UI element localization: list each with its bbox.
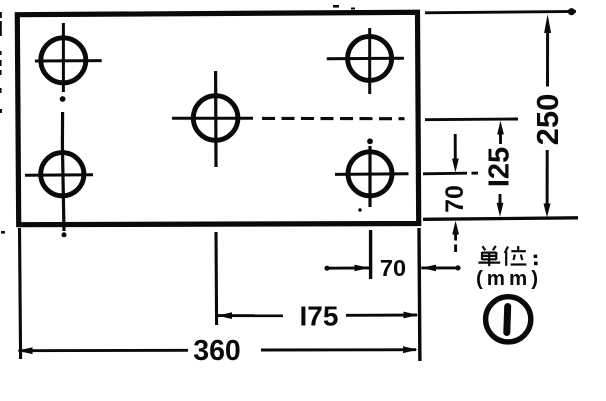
svg-text:70: 70	[441, 185, 469, 213]
center line H4 vertical	[368, 28, 371, 94]
note unit label 位	[505, 246, 527, 266]
hole H1 top-left	[41, 38, 86, 83]
dimension 70 horizontal (bottom)	[324, 265, 460, 272]
dimension 70 vertical (right side)	[452, 134, 459, 252]
center line H5 horizontal	[335, 172, 409, 176]
hole H5 bottom-right	[348, 152, 392, 196]
svg-text:(mm): (mm)	[476, 267, 542, 290]
scan specks top edge	[333, 5, 355, 10]
note unit colon	[534, 255, 538, 266]
note unit label 单	[478, 246, 500, 266]
svg-text:250: 250	[530, 94, 565, 146]
center line H2 end dot	[62, 232, 67, 237]
speck below H5	[358, 208, 361, 211]
svg-text:70: 70	[380, 255, 406, 281]
svg-text:360: 360	[193, 335, 241, 367]
dimension 360	[18, 346, 418, 354]
center line H3 horizontal	[172, 117, 253, 120]
center line H3 vertical	[214, 71, 218, 167]
center line H1 horizontal	[35, 59, 102, 62]
dimension 175	[217, 312, 418, 319]
center line H2 vertical	[62, 145, 64, 231]
extension line bottom right	[423, 218, 578, 220]
dimension 125 vertical	[497, 121, 504, 217]
extension line center bottom	[214, 232, 218, 325]
extension line top right	[425, 8, 576, 15]
extension line center right	[425, 118, 518, 122]
extension line left bottom	[20, 228, 21, 359]
first-angle projection symbol circle	[486, 297, 531, 342]
hole H4 top-right	[348, 36, 392, 80]
hole H3 center	[193, 96, 238, 141]
extension line hole-right bottom	[369, 230, 372, 279]
center line H2 horizontal	[25, 173, 93, 177]
dimension 250 vertical	[544, 14, 552, 217]
hole H2 bottom-left	[41, 153, 84, 196]
center line dash between left holes	[61, 112, 64, 145]
extension line lower-holes right	[423, 172, 478, 176]
extension line right bottom	[417, 228, 421, 361]
center line H4 horizontal	[327, 57, 404, 61]
plate outline	[17, 12, 418, 224]
center line H5 top dot	[367, 138, 373, 144]
center line dot between left holes	[60, 96, 66, 102]
dashed center line to right edge	[262, 117, 405, 120]
center line H1 vertical	[62, 23, 65, 92]
scan specks left margin	[0, 12, 5, 234]
svg-text:I25: I25	[483, 147, 515, 187]
center line H5 vertical	[368, 146, 371, 207]
svg-text:I75: I75	[300, 300, 339, 331]
